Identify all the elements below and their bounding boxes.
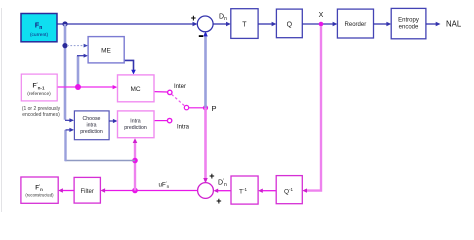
svg-text:+: + [216,196,221,206]
wire adder 2 output to Filter [100,188,197,192]
svg-text:Reorder: Reorder [345,22,367,28]
switch pole [184,105,188,109]
wire T to Q [258,22,276,26]
svg-text:Intra: Intra [177,125,190,131]
svg-text:Inter: Inter [174,84,186,90]
block Intra prediction [118,111,155,138]
wire MC output to Inter contact [154,91,167,93]
label 1 or 2 previously encoded frames [22,106,61,118]
block Filter [74,177,100,203]
wire ME output to MC [124,60,136,74]
label minus adder 1 [199,35,203,37]
svg-text:T: T [242,22,247,29]
svg-text:NAL: NAL [446,20,462,29]
block reference frame [21,74,57,101]
wire pole to node P [189,107,206,109]
wire dashed Fn to ME input 1 [67,44,88,48]
wire reference frame to MC [57,85,117,89]
block Choose intra prediction [74,111,109,140]
wire Fn down to Choose intra prediction [65,24,74,122]
svg-text:+: + [209,171,214,181]
wire uF'n up to Intra prediction [133,138,138,190]
block Entropy encode [391,8,426,38]
node junction uF'n branch [132,158,138,164]
wire Filter to reconstructed frame [58,188,74,192]
adder 1 summing junction [197,16,213,32]
block Q [276,9,302,38]
node junction on Fn line [62,21,67,26]
svg-text:Intra: Intra [130,118,140,124]
node junction uF'n [132,188,138,194]
node P [203,105,208,110]
wire Reorder to Entropy encode [374,22,392,26]
svg-text:prediction: prediction [80,129,103,135]
switch Intra contact [167,118,171,122]
wire Choose intra to Intra prediction [109,119,117,123]
block T inverse [231,176,258,204]
svg-text:(reference): (reference) [27,91,51,97]
switch arm dashed [172,94,185,105]
svg-text:prediction: prediction [124,125,147,131]
svg-text:Entropy: Entropy [398,18,419,24]
svg-text:+: + [191,13,196,23]
adder 2 summing junction [198,183,214,199]
svg-text:encode: encode [399,25,419,31]
wire Intra prediction output to Intra contact [154,120,167,122]
svg-text:Filter: Filter [81,189,94,195]
block ME [88,37,124,63]
faint page border left [1,8,3,212]
wire adder 1 to T [213,22,231,26]
wire uF'n to Choose intra prediction [65,128,135,161]
wire Q to Reorder through node X [302,22,337,26]
svg-text:intra: intra [86,122,96,128]
svg-text:Choose: Choose [83,116,101,122]
svg-text:Q: Q [287,22,293,29]
wire reference to ME input 2 [77,54,88,87]
svg-text:(current): (current) [30,32,49,38]
block T [231,9,258,39]
switch Inter contact [168,90,172,94]
wire Entropy encode to NAL [426,22,441,26]
wire Fn output to adder 1 [57,22,198,26]
wire Tinv to adder 2 [214,189,232,193]
svg-text:(reconstructed): (reconstructed) [25,193,54,198]
svg-text:P: P [212,104,217,113]
svg-text:MC: MC [130,86,140,93]
wire X down to Qinv [302,26,321,193]
node junction reference/ME [75,84,81,90]
wire P down to adder 2 plus input [203,108,208,183]
block Q inverse [276,176,302,204]
svg-text:encoded frames): encoded frames) [22,112,60,118]
block MC [118,75,155,102]
wire P up to adder 1 minus input [203,32,208,108]
svg-text:ME: ME [101,48,111,55]
block Fn current [21,14,57,42]
node junction to ME [62,43,67,48]
block reconstructed frame [21,177,58,203]
block Reorder [337,9,373,38]
wire Qinv to Tinv [258,189,276,193]
node X [319,22,324,27]
svg-text:X: X [319,12,324,19]
